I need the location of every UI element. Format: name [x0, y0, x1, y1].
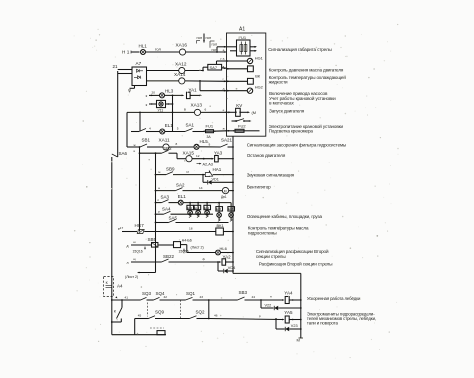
svg-text:А2,А3: А2,А3: [203, 162, 213, 166]
svg-text:18: 18: [189, 227, 193, 231]
svg-text:FU2: FU2: [238, 123, 246, 128]
sensor block BK2 (coolant temp): [248, 78, 254, 84]
svg-text:15Q16: 15Q16: [133, 250, 143, 254]
wire: [112, 299, 141, 301]
svg-text:Ускоренная работа лебёдки: Ускоренная работа лебёдки: [307, 296, 361, 301]
svg-text:V23: V23: [291, 324, 298, 328]
svg-text:SQ9: SQ9: [155, 310, 165, 315]
svg-text:л: л: [127, 261, 129, 265]
wire гол: [146, 51, 180, 53]
wire: [156, 213, 164, 215]
svg-text:Вентилятор: Вентилятор: [247, 184, 271, 189]
svg-text:гол: гол: [212, 42, 218, 46]
svg-text:4: 4: [149, 127, 151, 131]
svg-text:ВК: ВК: [255, 73, 261, 78]
svg-text:гол: гол: [155, 46, 162, 51]
svg-text:гидросистемы: гидросистемы: [248, 230, 277, 235]
svg-text:н: н: [270, 295, 272, 299]
sensor block BK (oil pressure): [248, 66, 254, 72]
svg-text:д: д: [223, 87, 225, 91]
wire lamp header: [183, 202, 231, 204]
svg-text:12: 12: [196, 154, 200, 158]
svg-text:жидкости: жидкости: [269, 80, 288, 85]
svg-text:(Лист 2): (Лист 2): [191, 245, 204, 249]
svg-text:гол: гол: [212, 48, 218, 52]
svg-text:17: 17: [120, 226, 124, 230]
bus to M terminal: [233, 272, 301, 274]
svg-text:SB22: SB22: [163, 254, 175, 259]
svg-text:SA3: SA3: [161, 195, 170, 200]
svg-text:KV: KV: [236, 103, 242, 108]
wire: [139, 147, 141, 232]
wire off-sheet list 2: [139, 272, 156, 274]
svg-text:тали и поворота: тали и поворота: [307, 321, 339, 326]
wire: [199, 146, 221, 148]
svg-text:Останов двигателя: Останов двигателя: [247, 153, 286, 158]
boxed lamp HL4: [157, 100, 166, 107]
svg-text:6: 6: [205, 107, 207, 111]
svg-text:14: 14: [199, 186, 203, 190]
svg-text:46: 46: [214, 314, 218, 318]
wire step down: [176, 153, 178, 159]
svg-text:42: 42: [164, 295, 168, 299]
svg-text:HA1: HA1: [213, 167, 222, 172]
fan motor M: [222, 187, 228, 193]
wire: [165, 131, 185, 133]
diode V22: [260, 300, 262, 308]
svg-text:20: 20: [152, 91, 156, 95]
svg-text:44: 44: [252, 295, 256, 299]
svg-text:XA11: XA11: [159, 138, 171, 143]
wire bottom rail: [112, 334, 166, 336]
wire: [144, 231, 216, 233]
switch block SA7: [208, 64, 222, 70]
linkage box SQ9: [157, 331, 165, 335]
wire row2 to YA5: [208, 300, 210, 319]
bus vertical return: [232, 136, 234, 273]
wire loop to bottom: [134, 319, 136, 335]
svg-text:Дв1: Дв1: [221, 195, 227, 199]
svg-text:секции стрелы: секции стрелы: [256, 254, 286, 259]
svg-text:43: 43: [200, 295, 204, 299]
wire: [156, 222, 169, 224]
svg-text:Расфиксация Второй секции стре: Расфиксация Второй секции стрелы: [259, 260, 333, 266]
svg-text:45: 45: [138, 314, 142, 318]
svg-text:HL5: HL5: [200, 139, 209, 144]
wire to HL6: [181, 244, 187, 246]
svg-text:Подсветка креномера: Подсветка креномера: [269, 129, 314, 134]
svg-text:XA12: XA12: [175, 61, 187, 66]
svg-text:SA5: SA5: [169, 216, 178, 221]
svg-text:д: д: [127, 244, 129, 248]
wire A7 to XA12: [147, 70, 179, 72]
wire left rail through: [111, 300, 113, 335]
opto HG1 inside A7: [137, 69, 140, 72]
svg-text:V22: V22: [265, 304, 272, 308]
wire: [166, 103, 173, 105]
wire to BK sensor 1: [227, 68, 248, 70]
svg-text:9: 9: [209, 142, 211, 146]
svg-text:SA21: SA21: [221, 138, 233, 143]
wire SA7 top to HG1 row: [216, 61, 218, 64]
lamp EL4: [206, 203, 208, 211]
svg-text:м: м: [158, 170, 160, 174]
wire A7 to XA14: [147, 80, 179, 82]
svg-text:HL3: HL3: [165, 89, 174, 94]
svg-text:Запуск двигателя: Запуск двигателя: [269, 108, 305, 113]
svg-text:EL1: EL1: [165, 123, 174, 128]
svg-text:HL6: HL6: [220, 246, 228, 251]
svg-text:HG1: HG1: [255, 55, 263, 60]
svg-text:EL3: EL3: [195, 206, 200, 210]
wire SB2 row: [140, 152, 162, 154]
wire: [156, 190, 176, 192]
indicator lamp HG2: [247, 88, 252, 93]
svg-text:М: М: [224, 189, 227, 193]
svg-text:SB3: SB3: [239, 290, 248, 295]
wire junction vertical: [172, 95, 174, 131]
wire to HG2: [227, 90, 248, 92]
svg-text:SB5: SB5: [148, 237, 157, 242]
label box EL4: [204, 205, 211, 209]
wire to A1 FU2: [214, 130, 227, 132]
wire: [156, 174, 167, 176]
svg-text:(Лист 2): (Лист 2): [125, 275, 138, 279]
svg-text:XA13: XA13: [191, 103, 203, 108]
relay A4 dashed box: [104, 277, 114, 297]
diode VD4: [217, 262, 219, 271]
svg-text:SB9: SB9: [166, 167, 175, 172]
diode VD1: [202, 175, 204, 183]
svg-text:Сигнализация габарита стрелы: Сигнализация габарита стрелы: [268, 47, 332, 52]
wire left rail down: [111, 157, 113, 300]
svg-text:б: б: [223, 57, 225, 61]
label box EL6: [228, 207, 235, 211]
diode V23: [275, 319, 277, 329]
svg-text:А4: А4: [117, 284, 123, 289]
lamp EL2: [189, 203, 191, 211]
svg-text:HG7: HG7: [135, 223, 145, 228]
svg-text:SA7: SA7: [210, 65, 218, 70]
svg-text:Сигнализация засорения фильтра: Сигнализация засорения фильтра гидросист…: [247, 143, 347, 148]
svg-text:А1: А1: [239, 27, 245, 33]
opto HG2 inside A7: [138, 76, 141, 79]
svg-text:Н 1: Н 1: [122, 50, 130, 55]
wire: [169, 146, 194, 148]
tap to A2 A3: [199, 163, 201, 165]
lamp EL3: [197, 203, 199, 211]
svg-text:SQ2: SQ2: [196, 310, 206, 315]
wire XA12 to SA7 and A1: [185, 70, 203, 72]
relay contact KV: [232, 120, 237, 122]
wire XA13 feed: [127, 111, 194, 113]
wire: [213, 174, 233, 176]
svg-text:YA1: YA1: [189, 87, 198, 92]
svg-text:YA3: YA3: [214, 151, 223, 156]
svg-text:SA1: SA1: [186, 122, 195, 127]
svg-text:XA14: XA14: [174, 72, 186, 77]
svg-text:гол: гол: [206, 36, 212, 40]
wire XA14 to A1: [185, 80, 227, 82]
switch cab light: [131, 131, 139, 133]
svg-text:VD4: VD4: [228, 266, 235, 270]
wire: [127, 146, 140, 148]
scan noise speckles: [176, 66, 177, 67]
svg-text:в: в: [184, 107, 186, 111]
svg-text:SQ3: SQ3: [142, 291, 152, 296]
svg-text:8: 8: [176, 142, 178, 146]
wire FU1 out: [250, 46, 256, 48]
wire vertical lamp tap: [139, 112, 141, 131]
svg-text:VD1: VD1: [212, 177, 219, 181]
label box EL3: [194, 205, 201, 209]
wire: [223, 231, 233, 233]
wire XA13 to KV: [201, 111, 227, 113]
wire to BK sensor 2: [227, 80, 248, 82]
wire: [156, 202, 162, 204]
label box EL2: [187, 205, 194, 209]
svg-text:в моточасах: в моточасах: [269, 101, 294, 106]
svg-text:EL1: EL1: [178, 194, 187, 199]
svg-text:YA4: YA4: [284, 291, 293, 296]
svg-text:YA5: YA5: [284, 310, 293, 315]
lamp EL6: [230, 203, 232, 213]
wire: [165, 94, 183, 96]
wire: [220, 252, 233, 254]
wire: [122, 231, 137, 233]
label box EL5: [216, 207, 223, 211]
svg-text:SA2: SA2: [176, 183, 185, 188]
svg-text:SB1: SB1: [142, 138, 151, 143]
svg-text:А4-Б6: А4-Б6: [182, 238, 192, 242]
svg-text:41: 41: [125, 295, 129, 299]
wire: [158, 244, 174, 246]
svg-text:XA16: XA16: [176, 42, 188, 47]
svg-text:Контроль давления масла двигат: Контроль давления масла двигателя: [269, 68, 344, 73]
svg-text:А7: А7: [136, 61, 142, 66]
indicator lamp HG1: [247, 58, 252, 63]
wire: [192, 158, 213, 160]
wire: [131, 51, 140, 53]
svg-text:р: р: [158, 210, 160, 214]
wire step to HG2 row: [199, 81, 201, 91]
svg-text:XA15: XA15: [183, 150, 195, 155]
wire: [229, 190, 233, 192]
svg-text:е: е: [223, 108, 225, 112]
wire to A1: [186, 51, 227, 53]
svg-text:FU1: FU1: [206, 123, 214, 128]
wire: [135, 318, 149, 320]
svg-text:н: н: [158, 186, 160, 190]
svg-text:21: 21: [113, 64, 119, 69]
wire to HG1: [227, 60, 248, 62]
svg-text:HG2: HG2: [255, 84, 263, 89]
relay box A4-B6: [174, 242, 181, 248]
lamp EL5: [218, 203, 220, 213]
svg-text:и: и: [134, 149, 136, 153]
svg-text:а: а: [223, 48, 225, 52]
svg-text:ВК1: ВК1: [217, 223, 225, 228]
mech linkage dashed: [146, 303, 148, 317]
wire rail: [155, 153, 157, 272]
wire vertical to SB1 row: [126, 112, 128, 147]
wire rail 21 down: [117, 71, 119, 157]
svg-text:р: р: [259, 314, 261, 318]
svg-text:SQ1: SQ1: [186, 291, 196, 296]
wire YA1 out: [190, 94, 200, 96]
ground at A7: [134, 86, 136, 89]
svg-text:гол: гол: [197, 36, 203, 40]
svg-text:И: И: [187, 170, 189, 174]
svg-text:SA6: SA6: [119, 151, 128, 156]
svg-text:Освещение кабины, площадки, гр: Освещение кабины, площадки, груза: [247, 214, 323, 219]
svg-text:HL1: HL1: [139, 44, 148, 49]
svg-text:(М: (М: [252, 110, 257, 115]
svg-text:Звуковая сигнализация: Звуковая сигнализация: [247, 172, 295, 177]
svg-text:5: 5: [177, 127, 179, 131]
